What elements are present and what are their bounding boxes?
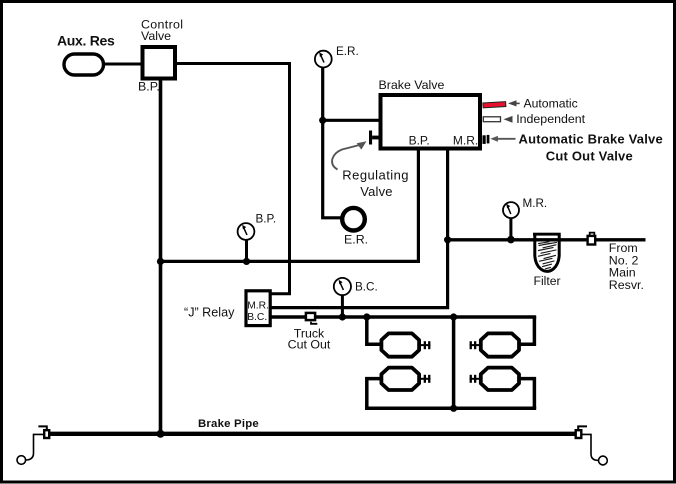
wire M.R. gauge stem (509, 218, 512, 240)
svg-text:Aux. Res: Aux. Res (57, 32, 115, 48)
arrowhead automatic (508, 100, 517, 106)
svg-text:B.C.: B.C. (355, 280, 378, 293)
wire cylinder group left feed (367, 317, 383, 344)
svg-text:Resvr.: Resvr. (609, 278, 644, 292)
wire Brake Valve B.P. port down and left (161, 149, 419, 262)
angle cock left (38, 426, 49, 438)
wire cylinder 2 to bottom line (367, 379, 383, 409)
reservoir E.R. (342, 208, 368, 247)
arrowhead independent (504, 116, 513, 123)
brake cylinder BC3 (top-right) (470, 333, 519, 356)
gauge M.R. (503, 197, 547, 218)
svg-text:Automatic: Automatic (524, 96, 578, 110)
brake cylinder BC4 (bottom-right) (470, 368, 519, 390)
wire cylinder group right feed (518, 317, 534, 344)
gauge B.C. (334, 278, 378, 295)
wire Brake Valve M.R. port down to J relay (272, 149, 448, 308)
node junction cylinder group top-left (363, 313, 370, 320)
angle cock right (576, 426, 587, 438)
node junction B.P. gauge stem (243, 258, 250, 265)
wire cylinder 4 to bottom line (518, 379, 534, 409)
arrow cut out valve (496, 138, 516, 140)
hose right with glad hand (582, 434, 599, 460)
node junction M.R. gauge (507, 236, 515, 244)
label From No.2 Main Resvr. (609, 241, 644, 292)
svg-text:Cut Out Valve: Cut Out Valve (546, 148, 633, 163)
independent brake handle (white) (483, 117, 500, 122)
automatic brake valve cut out valve handle (483, 135, 490, 144)
svg-text:Brake Pipe: Brake Pipe (198, 418, 259, 430)
wire B.C. gauge stem (341, 296, 344, 318)
wire Aux.Res to Control Valve (104, 63, 142, 66)
svg-text:Brake Valve: Brake Valve (379, 78, 445, 92)
svg-text:M.R.: M.R. (523, 197, 548, 210)
svg-text:Cut Out: Cut Out (288, 338, 331, 352)
gauge B.P. (238, 213, 276, 240)
wire cylinder group middle vertical (452, 317, 456, 408)
J relay JR (184, 291, 270, 326)
brake cylinder BC1 (top-left) (381, 333, 430, 356)
brake cylinder BC2 (bottom-left) (381, 368, 430, 390)
wire M.R. supply line to filter and No.2 main reservoir (448, 238, 646, 241)
node junction B.P. line / control valve drop (157, 258, 164, 265)
regulating valve handle on Brake Valve (369, 131, 379, 145)
svg-text:Valve: Valve (360, 184, 393, 199)
svg-text:“J” Relay: “J” Relay (184, 305, 235, 319)
wire Control Valve right to vertical feed (177, 64, 290, 294)
node junction bottom middle (450, 405, 457, 412)
svg-text:E.R.: E.R. (344, 233, 368, 247)
wire E.R. junction to Brake Valve (323, 119, 380, 122)
hose left with glad hand (26, 434, 43, 460)
svg-text:Regulating: Regulating (342, 168, 409, 183)
truck cut out valve TCO (288, 313, 331, 352)
svg-text:Automatic Brake Valve: Automatic Brake Valve (519, 132, 663, 147)
control valve CV (138, 18, 183, 94)
node junction brake pipe / control valve drop (157, 430, 165, 438)
reservoir Aux. Res (57, 32, 115, 75)
svg-text:B.P.: B.P. (138, 80, 160, 94)
brake valve BV (379, 78, 481, 149)
svg-text:Independent: Independent (516, 112, 585, 126)
wire B.P. gauge stem (245, 240, 248, 261)
arrow to regulating valve (332, 145, 359, 170)
automatic brake handle (red) (483, 102, 506, 108)
node junction cylinder group top-middle (450, 313, 457, 320)
wire Control Valve B.P. down to Brake Pipe (159, 81, 163, 434)
gauge E.R. (top) (315, 45, 359, 68)
svg-text:B.P.: B.P. (256, 213, 277, 226)
filter F1 (533, 233, 561, 288)
wire brake pipe (47, 432, 575, 436)
svg-text:Valve: Valve (141, 29, 171, 43)
svg-text:M.R.: M.R. (453, 134, 478, 148)
node junction B.C. gauge (339, 313, 346, 320)
node junction M.R. supply (444, 236, 451, 243)
svg-text:B.P.: B.P. (409, 134, 430, 148)
node junction at E.R. line (319, 117, 326, 124)
svg-text:B.C.: B.C. (247, 312, 267, 323)
valve on No.2 main reservoir line (588, 233, 596, 245)
wire E.R. gauge down to E.R. reservoir (323, 68, 341, 218)
svg-text:Filter: Filter (534, 274, 561, 288)
svg-text:E.R.: E.R. (336, 45, 359, 58)
svg-text:M.R.: M.R. (247, 300, 269, 311)
wire B.C. delivery line from J relay to truck cylinders (272, 315, 537, 318)
wire cylinder group bottom line (365, 407, 536, 411)
